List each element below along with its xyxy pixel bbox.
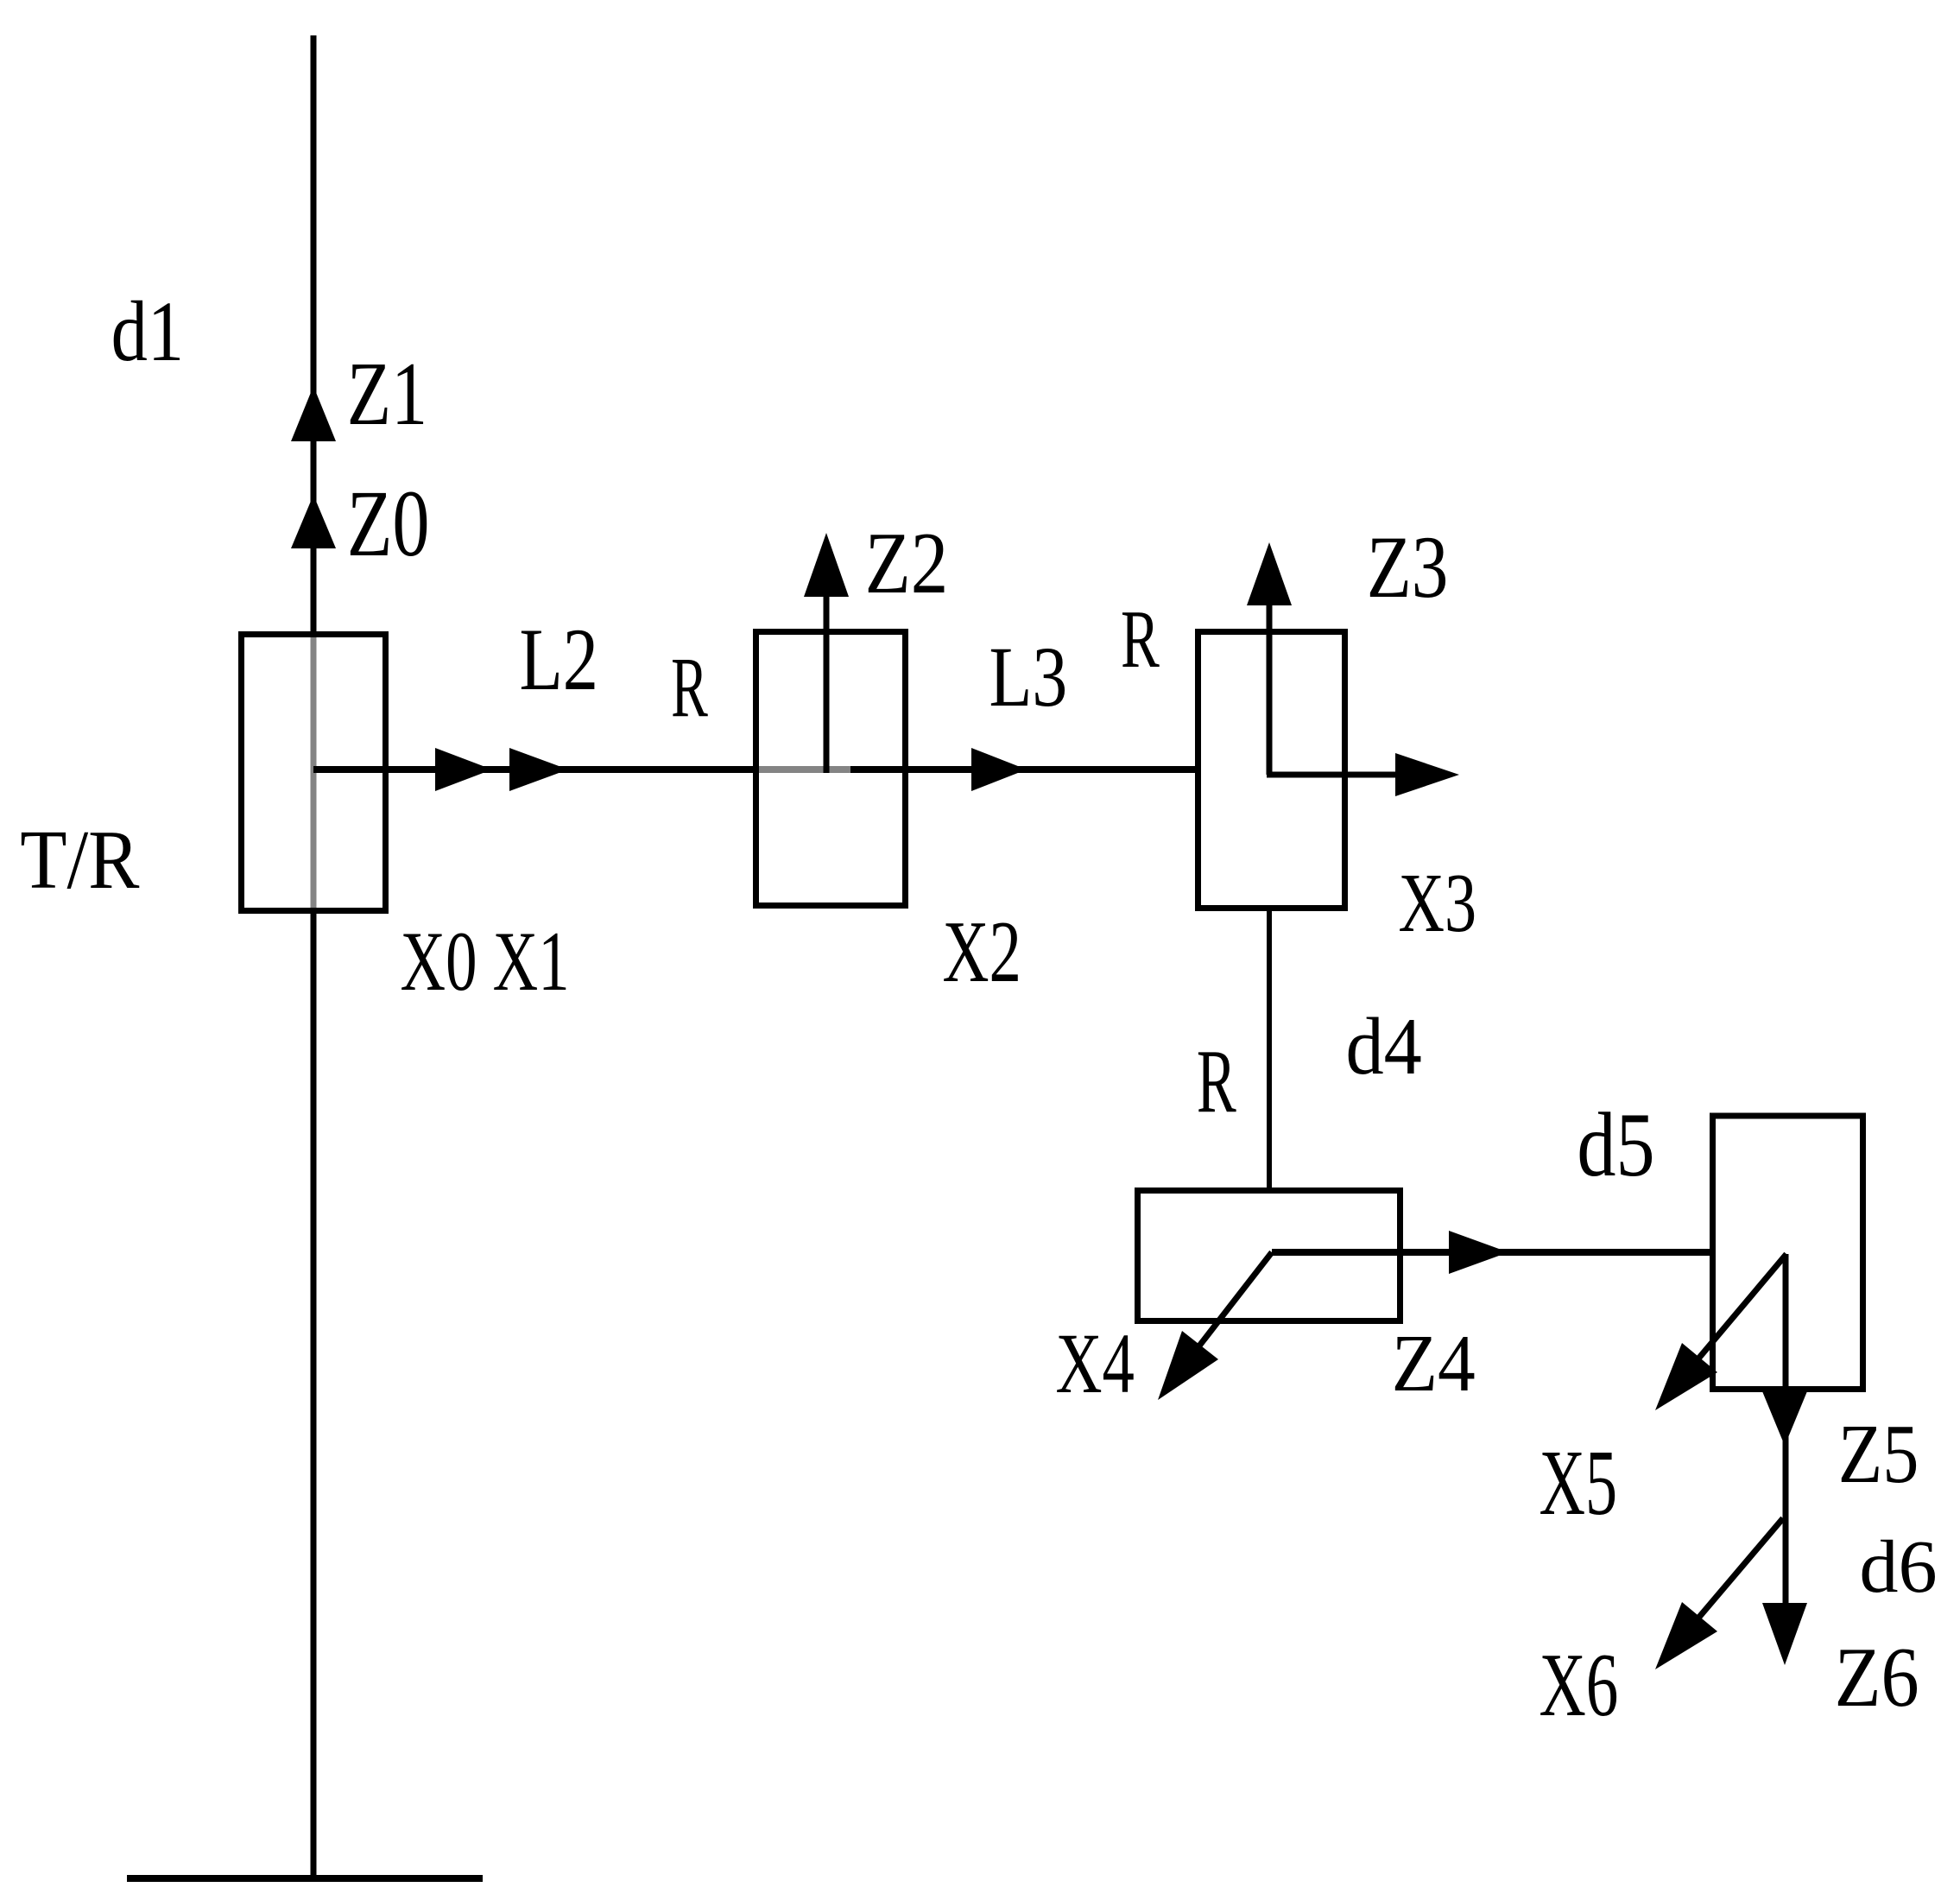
arrowhead Z4 axis (1449, 1231, 1508, 1274)
arrowhead Z0 axis (291, 495, 336, 548)
svg-text:X0 X1: X0 X1 (401, 914, 570, 1008)
joint 1 box (T/R prismatic-revolute) (242, 635, 386, 911)
wire: X4 axis diagonal stem (1173, 1252, 1272, 1379)
arrowhead X1 axis (509, 748, 568, 791)
joint 3 box (R revolute) (1198, 632, 1345, 909)
wire: gray segment of axis line inside joint-2 box (757, 766, 850, 773)
wire: link d4 from joint-3 box to joint-4 box (1267, 911, 1272, 1190)
arrowhead Z2 axis (804, 533, 849, 597)
arrowhead Z1 axis (291, 386, 336, 441)
wire: X6 axis diagonal stem (1672, 1518, 1783, 1650)
wire: Z4 axis line from joint-4 box to joint-5 box (1272, 1249, 1711, 1256)
joint 5 box (1713, 1116, 1863, 1390)
arrowhead X4 axis (down-left) (1158, 1331, 1218, 1400)
svg-text:X4: X4 (1056, 1316, 1135, 1412)
svg-text:Z6: Z6 (1835, 1631, 1919, 1725)
wire: Z2 axis stem (824, 553, 830, 773)
svg-text:d5: d5 (1577, 1094, 1654, 1195)
svg-text:T/R: T/R (20, 814, 139, 907)
svg-text:X6: X6 (1540, 1635, 1619, 1735)
joint 2 box (R revolute) (756, 632, 906, 906)
svg-text:R: R (671, 640, 708, 736)
wire: axis line X2 from joint-2 to joint-3 box (850, 766, 1198, 773)
svg-text:X2: X2 (943, 904, 1021, 1001)
svg-text:Z4: Z4 (1392, 1318, 1476, 1408)
wire: Z5/d6 vertical axis line (1783, 1254, 1789, 1637)
wire: X3 axis stem (1267, 772, 1407, 778)
svg-text:Z2: Z2 (865, 516, 949, 612)
svg-text:L2: L2 (520, 611, 598, 709)
svg-text:Z0: Z0 (347, 472, 430, 576)
wire: X5 axis diagonal stem (1672, 1254, 1786, 1390)
wire: Z3 axis stem (1267, 566, 1273, 775)
svg-text:d4: d4 (1346, 1001, 1422, 1091)
arrowhead Z3 axis (1247, 542, 1292, 605)
svg-text:d1: d1 (111, 284, 184, 379)
svg-text:R: R (1121, 592, 1160, 684)
svg-text:Z1: Z1 (347, 343, 427, 444)
joint 4 box (R revolute) (1138, 1191, 1400, 1321)
arrowhead X6 axis (down-left) (1655, 1602, 1717, 1669)
arrowhead Z5 axis (down) (1762, 1391, 1807, 1446)
wire: main vertical column (Z0/Z1 axis, link d1) (311, 35, 317, 1876)
svg-text:X3: X3 (1399, 856, 1477, 949)
arrowhead Z6 axis (down) (1762, 1603, 1807, 1665)
wire: horizontal axis line X0/X1 to joint-2 (313, 766, 757, 773)
wire: gray segment of column inside joint-1 box (311, 636, 317, 909)
arrowhead X5 axis (down-left) (1655, 1343, 1717, 1410)
svg-text:X5: X5 (1540, 1432, 1618, 1535)
svg-text:Z5: Z5 (1838, 1408, 1919, 1501)
arrowhead X2 axis (971, 748, 1027, 791)
svg-text:Z3: Z3 (1367, 519, 1449, 617)
svg-text:L3: L3 (989, 629, 1068, 725)
arrowhead X3 axis (1395, 753, 1459, 796)
ground base line (127, 1875, 483, 1882)
svg-text:R: R (1197, 1032, 1236, 1132)
svg-text:d6: d6 (1859, 1525, 1937, 1608)
arrowhead X0 axis (435, 748, 492, 791)
